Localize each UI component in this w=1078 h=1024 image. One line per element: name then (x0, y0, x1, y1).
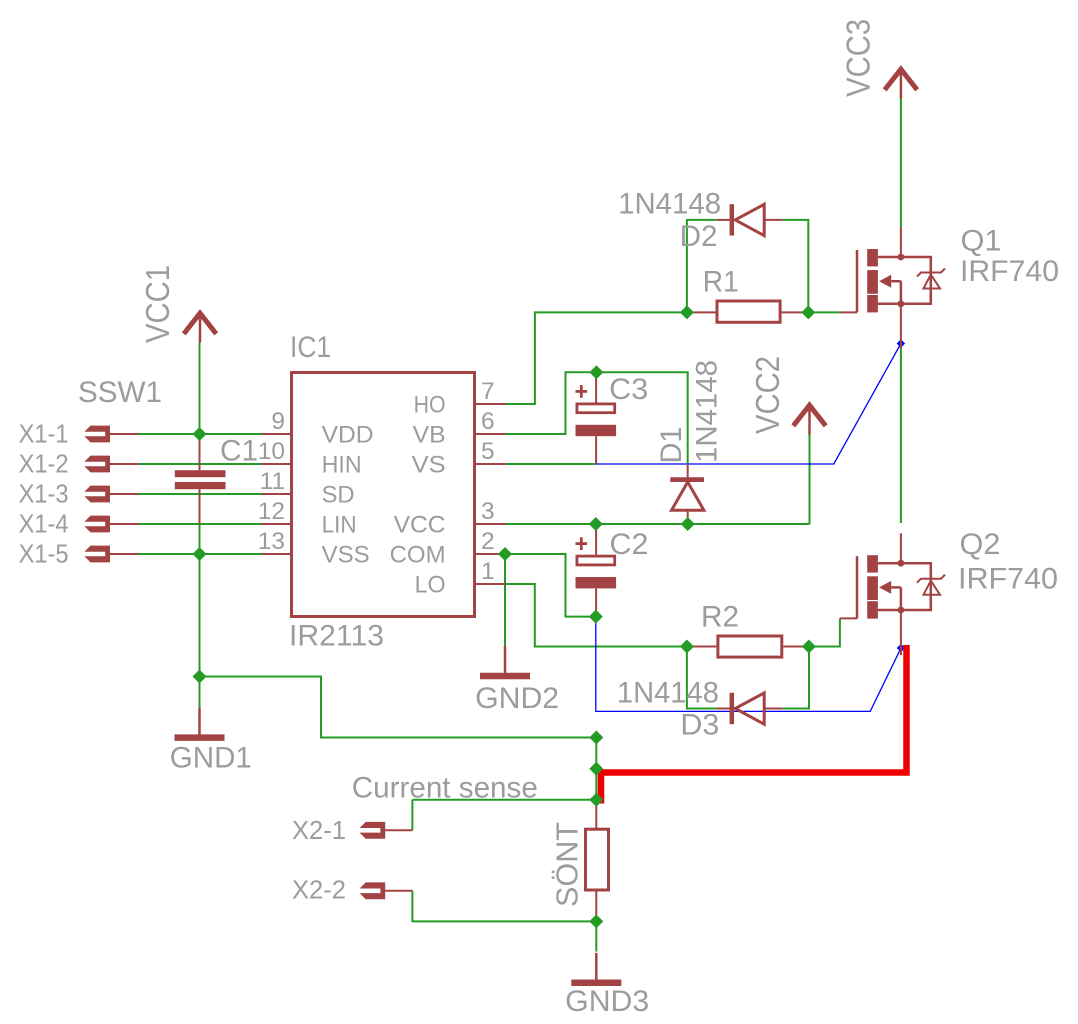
svg-text:VCC3: VCC3 (841, 19, 878, 97)
svg-text:R1: R1 (703, 265, 739, 298)
svg-text:1N4148: 1N4148 (691, 360, 724, 463)
svg-text:COM: COM (390, 541, 446, 568)
svg-text:10: 10 (258, 438, 285, 465)
svg-text:D3: D3 (680, 709, 719, 742)
svg-text:SD: SD (322, 481, 355, 508)
svg-text:3: 3 (481, 498, 495, 525)
svg-text:VCC1: VCC1 (140, 265, 177, 343)
svg-text:GND1: GND1 (170, 741, 252, 774)
svg-text:13: 13 (258, 528, 285, 555)
svg-text:Q2: Q2 (960, 528, 1001, 561)
svg-text:VS: VS (412, 451, 446, 478)
svg-text:HO: HO (414, 391, 446, 418)
svg-text:12: 12 (258, 498, 285, 525)
svg-text:VDD: VDD (322, 421, 374, 448)
svg-text:2: 2 (481, 528, 495, 555)
svg-text:1N4148: 1N4148 (617, 677, 719, 710)
svg-text:D1: D1 (655, 427, 688, 464)
svg-text:X1-3: X1-3 (19, 478, 69, 508)
svg-text:IRF740: IRF740 (960, 255, 1059, 288)
svg-text:SÖNT: SÖNT (550, 822, 585, 907)
svg-text:VCC2: VCC2 (750, 356, 787, 434)
svg-text:X1-1: X1-1 (19, 418, 69, 448)
svg-text:X1-4: X1-4 (19, 508, 69, 538)
svg-text:C3: C3 (609, 373, 648, 406)
svg-text:VB: VB (413, 421, 446, 448)
svg-text:LIN: LIN (322, 511, 357, 538)
svg-text:VCC: VCC (394, 511, 446, 538)
svg-text:9: 9 (271, 408, 285, 435)
svg-text:X1-2: X1-2 (19, 448, 69, 478)
svg-text:6: 6 (481, 408, 495, 435)
svg-text:X2-1: X2-1 (292, 815, 346, 845)
svg-text:SSW1: SSW1 (78, 376, 162, 409)
svg-text:5: 5 (481, 438, 495, 465)
svg-text:GND2: GND2 (475, 682, 559, 715)
svg-text:Current sense: Current sense (352, 772, 538, 805)
svg-text:C2: C2 (610, 528, 649, 561)
svg-text:1N4148: 1N4148 (618, 188, 721, 221)
svg-text:IR2113: IR2113 (289, 620, 384, 653)
svg-text:GND3: GND3 (565, 985, 649, 1018)
svg-text:X1-5: X1-5 (19, 538, 69, 568)
svg-text:11: 11 (260, 468, 285, 495)
svg-text:R2: R2 (701, 600, 739, 633)
svg-text:IRF740: IRF740 (958, 563, 1058, 596)
svg-text:1: 1 (481, 558, 495, 585)
svg-text:HIN: HIN (322, 451, 362, 478)
svg-text:Q1: Q1 (961, 225, 1002, 258)
svg-text:7: 7 (481, 378, 495, 405)
svg-text:VSS: VSS (322, 541, 370, 568)
svg-text:D2: D2 (680, 220, 718, 253)
svg-text:C1: C1 (220, 435, 258, 468)
svg-text:X2-2: X2-2 (292, 875, 346, 905)
svg-text:IC1: IC1 (290, 331, 331, 364)
svg-text:LO: LO (415, 571, 446, 598)
